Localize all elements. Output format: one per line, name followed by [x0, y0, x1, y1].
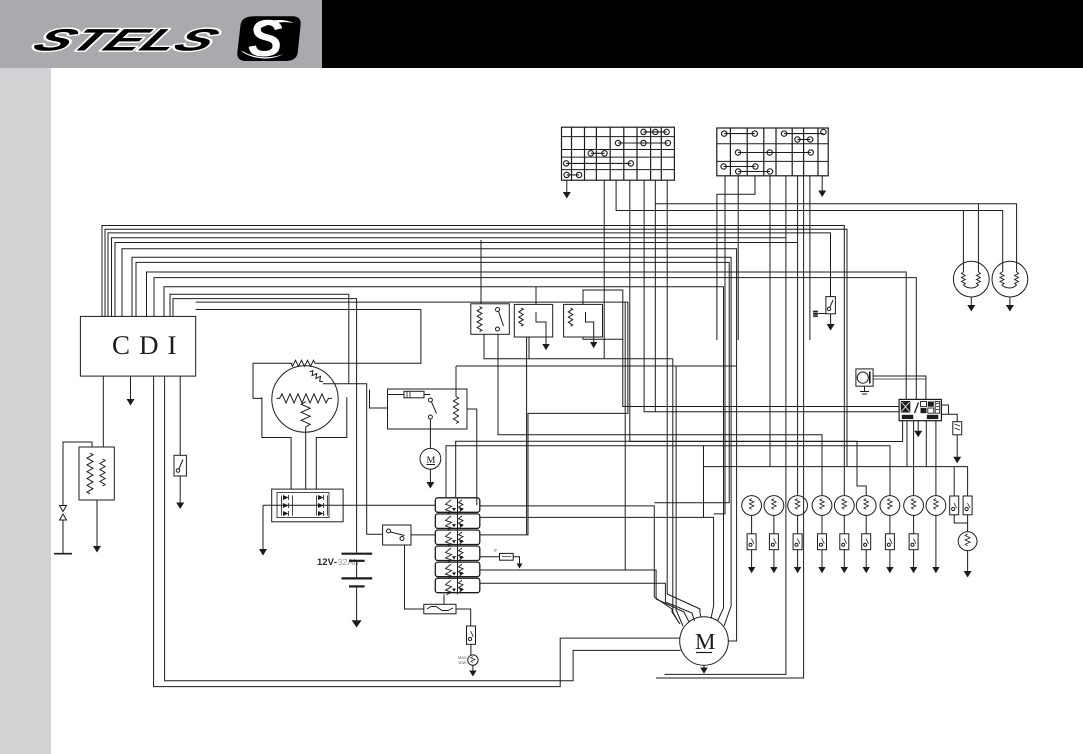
lamp row: lamp1 [742, 496, 762, 574]
ground X1 pin1 [566, 180, 568, 192]
STELS wordmark [30, 29, 222, 51]
brake switch S2 [383, 525, 411, 545]
motor M1 [680, 617, 729, 666]
tail lamp HL5 [468, 655, 478, 665]
wire branch to brake switch [349, 384, 383, 535]
ground X2 pin9 [821, 176, 823, 191]
wire L7 CDI to right bus [132, 257, 731, 626]
wire relay K3 to fuse row3 [526, 337, 528, 535]
rectifier D1 [272, 489, 343, 522]
fuse F2 [424, 604, 456, 614]
fuse F1 inside relay feed [404, 391, 424, 398]
X2 contacts row3 [721, 164, 758, 169]
magneto G1 [272, 366, 338, 432]
lamp9 [926, 496, 946, 574]
wire fuse top to lamp6 [456, 441, 867, 498]
lamp3 [788, 496, 808, 574]
fuse block FB [457, 498, 459, 595]
lamp2 [764, 496, 784, 574]
wire CDI pin to ignition coil [102, 376, 104, 447]
ignition coil T1 [79, 447, 114, 500]
X1 contacts row5 [564, 172, 582, 177]
wire mid h1 [484, 334, 529, 358]
spark plug gap E1 [60, 506, 67, 512]
wire loop around relay K4 [583, 290, 623, 339]
lamp7 [880, 496, 900, 574]
wire right bus [704, 446, 968, 518]
wire X2 pin5 drop [785, 176, 787, 238]
relay K4 [564, 304, 603, 337]
wire fuse row1 to motor funnel [480, 506, 680, 624]
wire L2 CDI to right bus [105, 229, 847, 466]
X1 contacts row2 [615, 140, 670, 145]
wire L8 CDI to motor funnel [136, 262, 729, 502]
wire mid vertical V3 to motor [676, 366, 683, 626]
header gray band [0, 0, 322, 68]
ground block X3 [917, 421, 919, 431]
ground CDI pin 2 [130, 376, 132, 399]
X2 contacts row2 [735, 150, 813, 155]
wire X1 pin7 to lamps bus2 [644, 180, 899, 412]
wire X2 pin8 drop [809, 176, 811, 340]
magneto winding vertical [301, 402, 310, 427]
S badge [237, 16, 300, 61]
headlight HL2 [992, 261, 1028, 297]
magneto stator winding horizontal [277, 394, 333, 403]
X2 contacts row1 [722, 129, 827, 136]
headlight HL1 [953, 261, 989, 297]
wire L12 CDI to magneto winding [170, 294, 349, 384]
wire X2 pin4 to right bus [769, 176, 771, 467]
connector grid X2 [717, 128, 828, 176]
wire L3 CDI to switch SW2 [108, 233, 831, 317]
wire bottom bus A CDI to motor [154, 376, 680, 686]
X2 contacts row1b [795, 137, 813, 142]
lamp5 [834, 496, 854, 574]
relay K1 coil [453, 397, 458, 424]
wire X2 pin7 to motor bottom [656, 176, 804, 678]
wire loopA fuse row3 to CDI [196, 302, 628, 535]
wire X2 pin2 drop [737, 176, 739, 340]
connector X4b [963, 496, 972, 515]
resistor R2 [953, 422, 962, 435]
wire X1 pin5 to headlights low [616, 180, 1003, 272]
relay K1 contact [428, 398, 432, 402]
wire fuse row2 to motor funnel [480, 517, 714, 618]
horn H1 [856, 369, 873, 386]
CDI unit U1 [80, 316, 195, 376]
wire L1 CDI to lamp5 [102, 226, 844, 496]
connector X4a [950, 496, 959, 515]
ground horn [860, 386, 869, 394]
wire mid h1 extension [529, 358, 673, 360]
X1 contacts row3 [588, 151, 607, 156]
starter motor M2 [420, 448, 441, 469]
resistor R1 on magneto feed [291, 360, 315, 366]
wire brake switch to fuse row3 [411, 534, 435, 536]
wire coil to spark gap [63, 442, 92, 506]
starter relay K1 [388, 389, 468, 429]
meter unit A1 [500, 553, 514, 560]
left gray margin strip [0, 68, 51, 754]
connector block X3 [899, 399, 941, 420]
ground rectifier [262, 505, 264, 549]
X1 contacts row4 [564, 161, 634, 166]
wire fuse top to lamp7 [446, 446, 890, 498]
ground ignition coil [96, 500, 98, 546]
header black band [322, 0, 1083, 68]
dc bus through rectifier [263, 504, 435, 506]
wire L10 CDI to connector block [154, 278, 916, 400]
wire fuse row5 to motor funnel [480, 570, 689, 622]
wire block to resistor R2 [941, 405, 957, 422]
wire L5 CDI to lamp3 feed [115, 243, 798, 317]
wire X1 pin9 to motor funnel [667, 180, 701, 617]
wire X2 pin6 to lamp3 [797, 176, 799, 496]
ground motor [703, 665, 705, 667]
rectifier diodes left [282, 495, 293, 516]
pickup switch S1 [174, 455, 186, 476]
magneto pedestal [262, 397, 291, 489]
wire F2 to lamp unit [456, 609, 471, 626]
license lamp HL4 [958, 532, 977, 551]
stop lamp connector X5 [467, 626, 476, 644]
wire mid vertical V1 to motor [624, 302, 626, 570]
wire X1 pin4 drop [603, 180, 605, 359]
wire L6 CDI to motor right [122, 249, 737, 641]
magneto pickup winding diagonal [310, 371, 323, 382]
X2 contacts row3b [736, 169, 773, 174]
wire CDI pin to pickup switch S1 [179, 376, 181, 455]
wire loop CDI to magneto resistor [196, 310, 421, 364]
fuse F3 hatched [813, 310, 818, 317]
wire stack bottom to F2 [443, 594, 445, 604]
wire block outputs down [906, 421, 908, 467]
connector grid X1 [562, 127, 675, 180]
wire fuse row6 to motor funnel [480, 583, 695, 621]
relay K3 flasher [514, 304, 552, 337]
wire relay K2 to lamp4 [498, 334, 822, 496]
X1 contacts row1 [641, 129, 670, 134]
switch S3 [826, 297, 836, 314]
wire bottom bus B CDI to motor [165, 376, 681, 681]
lamp6 [856, 496, 876, 574]
wire K4 loop to block [623, 339, 899, 406]
battery BT1 12V-32Ah [318, 558, 337, 565]
wire mid h2 [456, 365, 737, 367]
wire X2 pin3 jog drop [717, 176, 755, 340]
wire L4 CDI to motor lower right [112, 238, 786, 675]
wire mid vertical V2 to motor [673, 359, 679, 623]
relay K2 [471, 304, 510, 335]
wire X2 pin1 drop [714, 176, 725, 514]
wire X1 pin8 to headlights high [655, 180, 1016, 412]
lamp8 [904, 496, 924, 574]
wire X1 pin6 to lamps bus [630, 180, 903, 441]
wire horn to block [873, 376, 926, 399]
wire L9 CDI to connector block [147, 272, 907, 399]
wire fuse row4 to meter unit [480, 556, 500, 558]
ground bar spark plug [54, 553, 72, 555]
wire L11 CDI mid drop [164, 287, 724, 621]
wire brake switch to fuse F2 [405, 545, 424, 609]
rectifier diodes right [317, 495, 328, 516]
wire L13 CDI to battery positive [173, 299, 357, 554]
lamp4 [812, 496, 832, 574]
